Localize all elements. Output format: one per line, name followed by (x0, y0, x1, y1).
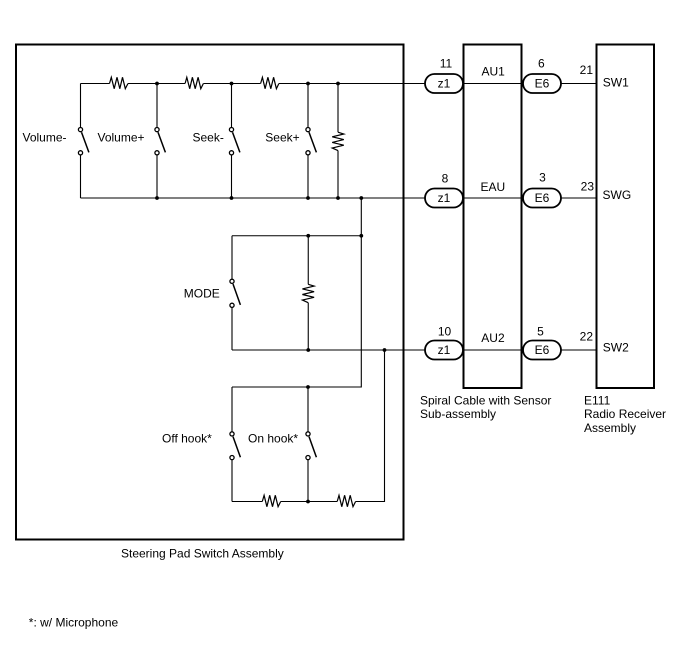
wire: R4 column lower stub (337, 151, 339, 198)
svg-text:*: w/ Microphone: *: w/ Microphone (29, 616, 119, 630)
svg-text:z1: z1 (438, 191, 451, 205)
svg-text:Seek+: Seek+ (265, 130, 299, 144)
wire: R5 column lower stub (307, 303, 309, 350)
svg-text:AU2: AU2 (481, 331, 505, 345)
resistor R1 (110, 77, 129, 88)
switch Seek- (229, 84, 240, 199)
wire: AU2 row through spiral cable box to E6 (463, 349, 523, 351)
switch Seek+ (306, 84, 317, 199)
node bottom rail / Seek- column (230, 196, 234, 200)
svg-text:MODE: MODE (184, 287, 220, 301)
wire: link from MODE bottom rail to telephone bottom rail (356, 350, 385, 502)
resistor R7 (337, 495, 355, 506)
svg-text:6: 6 (538, 57, 545, 71)
svg-text:SWG: SWG (603, 188, 632, 202)
wire: EAU row through spiral cable box to E6 (463, 197, 523, 199)
node top rail / R4 column (336, 82, 340, 86)
node top rail / Volume+ column (155, 82, 159, 86)
wire: R5 column upper stub (307, 236, 309, 285)
svg-text:5: 5 (537, 325, 544, 339)
resistor R3 (261, 77, 279, 88)
svg-text:E111: E111 (584, 393, 611, 407)
resistor R6 (262, 495, 280, 506)
wire: MODE bottom rail to z1 connector (row AU2) (232, 349, 425, 351)
node top rail / Seek- column (230, 82, 234, 86)
resistor R4 (332, 132, 344, 150)
svg-text:z1: z1 (438, 343, 451, 357)
switch Volume- (78, 84, 89, 199)
node telephone top rail / On hook column (306, 385, 310, 389)
resistor R2 (185, 77, 203, 88)
wire: top rail left segment (81, 83, 110, 85)
connector E6 pin 6 (AU1 row) (523, 74, 561, 93)
node bottom rail / link A (359, 196, 363, 200)
wire: AU2 row E6 to radio receiver SW2 (561, 349, 597, 351)
svg-text:23: 23 (581, 180, 595, 194)
svg-text:E6: E6 (535, 343, 550, 357)
wire: EAU row E6 to radio receiver SWG (561, 197, 597, 199)
svg-text:z1: z1 (438, 77, 451, 91)
node bottom rail / R4 column (336, 196, 340, 200)
svg-text:E6: E6 (535, 77, 550, 91)
box: E111 Radio Receiver Assembly (597, 45, 655, 389)
connector E6 pin 3 (EAU row) (523, 189, 561, 208)
svg-text:Off hook*: Off hook* (162, 431, 212, 445)
switch MODE (230, 236, 241, 350)
connector z1 pin 8 (EAU row) (425, 189, 463, 208)
connector E6 pin 5 (AU2 row) (523, 341, 561, 360)
wire: telephone bottom rail middle segment (281, 501, 338, 503)
node MODE bottom rail / link B (383, 348, 387, 352)
wire: top rail to z1 connector (row AU1) (279, 83, 425, 85)
svg-text:On hook*: On hook* (248, 431, 298, 445)
svg-text:SW1: SW1 (603, 76, 629, 90)
wire: top rail between R1 and R2 (128, 83, 185, 85)
svg-text:Steering Pad Switch Assembly: Steering Pad Switch Assembly (121, 547, 284, 561)
wire: AU1 row E6 to radio receiver SW1 (561, 83, 597, 85)
svg-text:10: 10 (438, 325, 452, 339)
switch On hook* (306, 387, 317, 502)
svg-text:11: 11 (440, 57, 453, 71)
wire: MODE top rail (232, 235, 361, 237)
svg-text:EAU: EAU (481, 180, 506, 194)
wire: AU1 row through spiral cable box to E6 (463, 83, 523, 85)
box: Steering Pad Switch Assembly (16, 45, 404, 540)
svg-text:21: 21 (580, 63, 594, 77)
node top rail / Seek+ column (306, 82, 310, 86)
connector z1 pin 11 (AU1 row) (425, 74, 463, 93)
svg-text:3: 3 (539, 170, 546, 184)
svg-text:22: 22 (580, 330, 594, 344)
svg-text:SW2: SW2 (603, 341, 629, 355)
svg-text:Spiral Cable with Sensor: Spiral Cable with Sensor (420, 393, 551, 407)
wire: bottom rail (EAU row) (81, 197, 426, 199)
wire: top rail between R2 and R3 (203, 83, 260, 85)
svg-text:8: 8 (442, 171, 449, 185)
node bottom rail / Volume+ column (155, 196, 159, 200)
svg-text:Volume+: Volume+ (98, 130, 145, 144)
node bottom rail / Seek+ column (306, 196, 310, 200)
svg-text:Assembly: Assembly (584, 421, 636, 435)
svg-text:Radio Receiver: Radio Receiver (584, 407, 666, 421)
wire: R4 column upper stub (337, 84, 339, 133)
svg-text:Volume-: Volume- (23, 130, 67, 144)
resistor R5 (302, 284, 314, 302)
svg-text:Sub-assembly: Sub-assembly (420, 407, 496, 421)
switch Off hook* (230, 387, 241, 502)
wire: telephone bottom rail left segment (232, 501, 262, 503)
box: Spiral Cable with Sensor Sub-assembly (464, 45, 522, 389)
wire: link from bottom rail to telephone-switch top rail (232, 198, 361, 387)
node MODE top rail / R5 column (306, 234, 310, 238)
node MODE bottom rail / R5 column (306, 348, 310, 352)
switch Volume+ (155, 84, 166, 199)
node telephone bottom rail / On hook column (306, 500, 310, 504)
node MODE top rail / link A (359, 234, 363, 238)
svg-text:AU1: AU1 (482, 65, 506, 79)
svg-text:E6: E6 (535, 191, 550, 205)
connector z1 pin 10 (AU2 row) (425, 341, 463, 360)
svg-text:Seek-: Seek- (193, 130, 224, 144)
